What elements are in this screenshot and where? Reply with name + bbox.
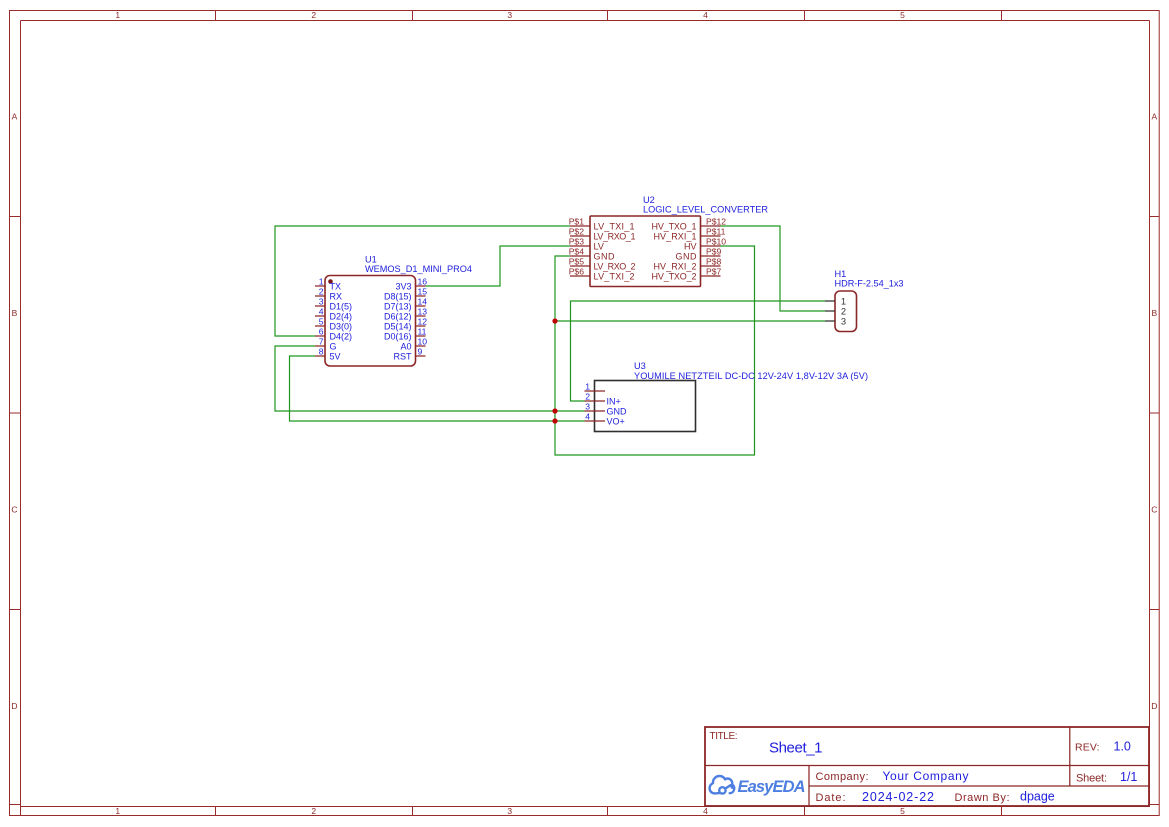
- U2 pin P$6 LV_TXI_2: [569, 267, 635, 282]
- svg-text:2: 2: [585, 392, 590, 402]
- module U3 body: [595, 381, 696, 432]
- svg-text:1: 1: [115, 806, 120, 816]
- U3 pin 2 IN+: [585, 392, 621, 407]
- svg-text:LV_TXI_2: LV_TXI_2: [594, 272, 635, 282]
- svg-text:Sheet:: Sheet:: [1076, 773, 1107, 785]
- svg-text:1: 1: [319, 277, 324, 287]
- IC U1 WEMOS_D1_MINI_PRO4 reference label: [365, 255, 472, 275]
- IC U1 body: [325, 276, 416, 367]
- svg-text:5: 5: [900, 806, 905, 816]
- svg-text:TX: TX: [330, 282, 342, 292]
- svg-text:P$3: P$3: [569, 237, 585, 247]
- svg-text:13: 13: [418, 307, 428, 317]
- H1 pin 2: [825, 306, 846, 317]
- svg-text:D8(15): D8(15): [384, 292, 412, 302]
- U2 pin P$7 HV_TXO_2: [652, 267, 722, 282]
- U2 pin P$3 LV: [569, 237, 604, 252]
- U1 pin 12 D5(14): [384, 317, 427, 332]
- wire U1 3V3 pin16 to U2 P$3 LV: [426, 246, 571, 286]
- svg-text:P$1: P$1: [569, 217, 585, 227]
- svg-text:4: 4: [319, 307, 324, 317]
- svg-text:3V3: 3V3: [395, 282, 411, 292]
- svg-text:2024-02-22: 2024-02-22: [862, 790, 934, 804]
- svg-text:U3: U3: [634, 361, 646, 371]
- svg-text:P$5: P$5: [569, 257, 585, 267]
- U1 pin 3 D1(5): [315, 297, 352, 312]
- svg-text:A: A: [1151, 112, 1157, 122]
- wire U2 P$4 GND to U2 P$10 HV: [555, 246, 755, 455]
- svg-text:C: C: [1151, 505, 1157, 515]
- svg-text:LV_TXI_1: LV_TXI_1: [594, 222, 635, 232]
- U3 pin 1 NC: [585, 382, 606, 392]
- svg-text:D5(14): D5(14): [384, 322, 412, 332]
- wire H1 pin1 to U3 IN+ pin2: [571, 301, 826, 401]
- svg-text:3: 3: [585, 402, 590, 412]
- svg-text:G: G: [330, 342, 337, 352]
- svg-text:P$7: P$7: [706, 267, 722, 277]
- U1 pin 11 D0(16): [384, 327, 427, 342]
- svg-text:A0: A0: [400, 342, 411, 352]
- svg-text:GND: GND: [607, 407, 628, 417]
- IC U2 LOGIC_LEVEL_CONVERTER reference label: [643, 195, 768, 215]
- svg-text:C: C: [11, 505, 17, 515]
- svg-text:H1: H1: [835, 269, 847, 279]
- svg-text:2: 2: [319, 287, 324, 297]
- svg-text:HV_RXI_2: HV_RXI_2: [654, 262, 697, 272]
- U1 pin 16 3V3: [395, 277, 427, 292]
- svg-text:3: 3: [507, 806, 512, 816]
- svg-text:dpage: dpage: [1020, 790, 1055, 804]
- U2 pin P$10 HV: [684, 237, 726, 252]
- U2 pin P$11 HV_RXI_1: [654, 227, 726, 242]
- svg-text:WEMOS_D1_MINI_PRO4: WEMOS_D1_MINI_PRO4: [365, 264, 472, 274]
- U1 pin 1 marker dot: [328, 279, 333, 284]
- svg-text:15: 15: [418, 287, 428, 297]
- U1 pin 13 D6(12): [384, 307, 427, 322]
- module U3 YOUMILE NETZTEIL reference label: [634, 361, 868, 381]
- svg-text:8: 8: [319, 347, 324, 357]
- svg-text:A: A: [12, 112, 18, 122]
- U1 pin 1 TX: [315, 277, 341, 292]
- svg-text:7: 7: [319, 337, 324, 347]
- svg-text:3: 3: [319, 297, 324, 307]
- svg-text:D3(0): D3(0): [330, 322, 353, 332]
- svg-text:2: 2: [311, 10, 316, 20]
- U1 pin 5 D3(0): [315, 317, 352, 332]
- U1 pin 9 RST: [394, 347, 426, 362]
- svg-text:5V: 5V: [330, 352, 341, 362]
- svg-text:D6(12): D6(12): [384, 312, 412, 322]
- svg-text:1: 1: [585, 382, 590, 392]
- svg-text:P$8: P$8: [706, 257, 722, 267]
- svg-text:1/1: 1/1: [1120, 770, 1137, 784]
- svg-text:RX: RX: [330, 292, 343, 302]
- wire U2 P$12 HV_TXO_1 to H1 pin2: [721, 226, 826, 311]
- svg-text:1: 1: [115, 10, 120, 20]
- U2 pin P$8 HV_RXI_2: [654, 257, 722, 272]
- U1 pin 15 D8(15): [384, 287, 427, 302]
- svg-text:TITLE:: TITLE:: [710, 731, 738, 742]
- svg-text:YOUMILE NETZTEIL DC-DC 12V-24V: YOUMILE NETZTEIL DC-DC 12V-24V 1,8V-12V …: [634, 371, 868, 381]
- connector H1 HDR-F-2.54_1x3 reference label: [835, 269, 904, 289]
- svg-text:Drawn By:: Drawn By:: [955, 792, 1010, 804]
- svg-text:4: 4: [703, 806, 708, 816]
- svg-text:EasyEDA: EasyEDA: [738, 778, 806, 796]
- U3 pin 3 GND: [585, 402, 628, 417]
- svg-text:IN+: IN+: [607, 397, 621, 407]
- U1 pin 14 D7(13): [384, 297, 427, 312]
- svg-text:LV_RXO_2: LV_RXO_2: [594, 262, 636, 272]
- svg-text:REV:: REV:: [1075, 742, 1100, 754]
- U2 pin P$12 HV_TXO_1: [652, 217, 727, 232]
- U2 pin P$9 GND: [676, 247, 722, 262]
- svg-text:D2(4): D2(4): [330, 312, 353, 322]
- svg-text:6: 6: [319, 327, 324, 337]
- svg-text:GND: GND: [594, 252, 616, 262]
- svg-text:VO+: VO+: [607, 417, 625, 427]
- title block: [705, 727, 1149, 806]
- svg-text:HV: HV: [684, 242, 697, 252]
- svg-text:HV_RXI_1: HV_RXI_1: [654, 232, 697, 242]
- svg-text:RST: RST: [394, 352, 413, 362]
- svg-text:P$12: P$12: [706, 217, 726, 227]
- svg-text:16: 16: [418, 277, 428, 287]
- svg-text:D1(5): D1(5): [330, 302, 353, 312]
- svg-text:LOGIC_LEVEL_CONVERTER: LOGIC_LEVEL_CONVERTER: [643, 205, 768, 215]
- junction at GND vertical / U3 VO+ wire: [552, 418, 557, 423]
- svg-text:2: 2: [311, 806, 316, 816]
- junction at GND vertical / U3 GND wire: [552, 408, 557, 413]
- wire U1 G pin7 to U3 GND pin3: [275, 346, 585, 411]
- svg-text:P$10: P$10: [706, 237, 726, 247]
- svg-text:LV: LV: [594, 242, 604, 252]
- svg-text:Sheet_1: Sheet_1: [769, 740, 823, 757]
- wire U1 D4(2) pin6 to U2 P$1 LV_TXI_1: [275, 226, 570, 336]
- svg-text:U2: U2: [643, 195, 655, 205]
- wire U1 5V pin8 to U3 VO+ pin4: [290, 356, 585, 421]
- svg-text:3: 3: [507, 10, 512, 20]
- svg-text:Your Company: Your Company: [883, 769, 969, 783]
- svg-text:Date:: Date:: [816, 792, 846, 804]
- svg-text:Company:: Company:: [816, 771, 869, 783]
- svg-text:P$9: P$9: [706, 247, 722, 257]
- svg-text:5: 5: [900, 10, 905, 20]
- junction at GND vertical / H1 pin3 wire: [552, 318, 557, 323]
- U1 pin 2 RX: [315, 287, 342, 302]
- svg-text:4: 4: [703, 10, 708, 20]
- IC U2 body: [590, 216, 701, 287]
- svg-text:9: 9: [418, 347, 423, 357]
- wire junction to H1 pin3: [555, 320, 825, 322]
- svg-text:1.0: 1.0: [1114, 740, 1131, 754]
- U2 pin P$4 GND: [569, 247, 615, 262]
- svg-text:11: 11: [418, 327, 427, 337]
- U2 pin P$5 LV_RXO_2: [569, 257, 636, 272]
- svg-text:D: D: [1151, 701, 1157, 711]
- H1 pin 3: [825, 316, 846, 327]
- svg-text:P$6: P$6: [569, 267, 585, 277]
- svg-text:U1: U1: [365, 255, 377, 265]
- svg-text:10: 10: [418, 337, 428, 347]
- svg-text:P$2: P$2: [569, 227, 585, 237]
- svg-text:HV_TXO_2: HV_TXO_2: [652, 272, 697, 282]
- connector H1 body: [835, 291, 857, 332]
- H1 pin 1: [825, 296, 846, 307]
- svg-text:HDR-F-2.54_1x3: HDR-F-2.54_1x3: [835, 279, 904, 289]
- svg-text:GND: GND: [676, 252, 698, 262]
- svg-text:4: 4: [585, 412, 590, 422]
- U1 pin 4 D2(4): [315, 307, 352, 322]
- svg-text:P$11: P$11: [706, 227, 726, 237]
- svg-text:P$4: P$4: [569, 247, 585, 257]
- U1 pin 7 G: [315, 337, 337, 352]
- svg-text:D: D: [11, 701, 17, 711]
- svg-text:3: 3: [841, 316, 846, 327]
- U3 pin 4 VO+: [585, 412, 625, 427]
- U1 pin 6 D4(2): [315, 327, 352, 342]
- U2 pin P$1 LV_TXI_1: [569, 217, 635, 232]
- svg-text:HV_TXO_1: HV_TXO_1: [652, 222, 697, 232]
- svg-text:D4(2): D4(2): [330, 332, 353, 342]
- svg-text:12: 12: [418, 317, 428, 327]
- svg-text:B: B: [1151, 308, 1157, 318]
- svg-text:5: 5: [319, 317, 324, 327]
- U1 pin 10 A0: [400, 337, 427, 352]
- U2 pin P$2 LV_RXO_1: [569, 227, 636, 242]
- svg-text:D0(16): D0(16): [384, 332, 412, 342]
- U1 pin 8 5V: [315, 347, 341, 362]
- svg-text:LV_RXO_1: LV_RXO_1: [594, 232, 636, 242]
- svg-text:B: B: [12, 308, 18, 318]
- svg-text:D7(13): D7(13): [384, 302, 412, 312]
- svg-text:14: 14: [418, 297, 428, 307]
